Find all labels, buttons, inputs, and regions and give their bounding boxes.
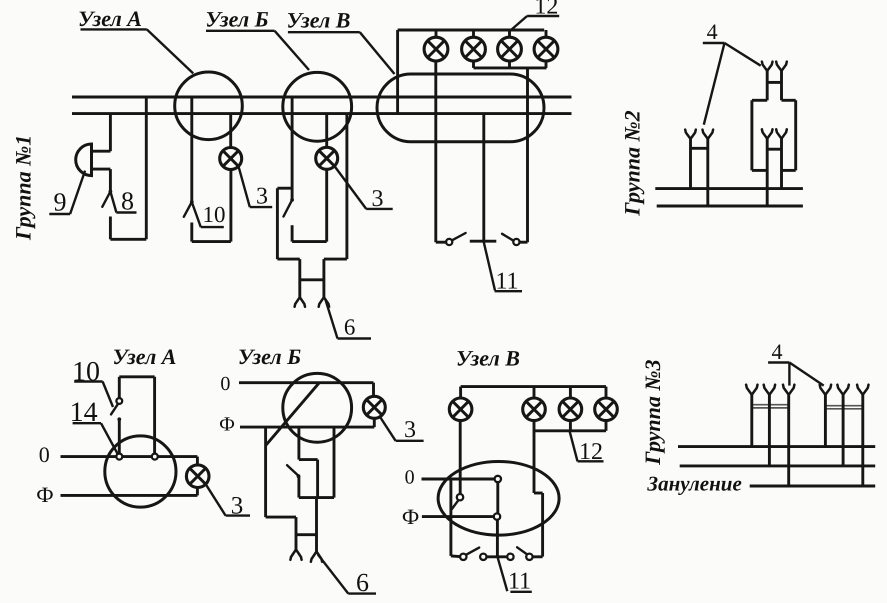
switch S11 contact b: [513, 239, 519, 245]
socket X2 inner stem 1 to bus N: [766, 139, 769, 206]
detail V lamp3 bottom stub: [569, 421, 572, 431]
bus N group 3: [680, 464, 876, 467]
label 4 pointer to right socket: [725, 43, 761, 66]
detail B outer-left vertical: [264, 427, 267, 517]
detail A right vertical: [196, 457, 199, 496]
svg-text:Группа №2: Группа №2: [620, 110, 645, 216]
detail V middle wire lower: [496, 520, 499, 556]
svg-text:Узел В: Узел В: [287, 8, 351, 33]
switch S10 blade: [184, 202, 192, 217]
lamp HL12-1 (detail V): [449, 398, 472, 421]
detail B inner vertical upper: [297, 427, 300, 460]
socket X3 connector double line: [752, 404, 789, 406]
switch S11 blade right (detail): [517, 547, 528, 555]
junction box ellipse (detail V): [438, 462, 559, 536]
bus L group 2: [655, 187, 803, 190]
detail B lamp to phase line: [373, 418, 376, 427]
socket X2 inner stem 2 to bus L: [780, 139, 783, 189]
label 3 node A pointer: [239, 166, 250, 207]
socket X1 stem 1 to bus L: [689, 139, 692, 189]
switch S11 contact a: [446, 239, 452, 245]
socket X2 top prong 1: [762, 62, 773, 71]
socket X3 stem 2 to bus N: [768, 395, 771, 466]
svg-text:6: 6: [344, 315, 356, 340]
switch S8 blade: [102, 192, 110, 207]
detail V lamp feed bus: [461, 385, 606, 388]
detail V terminal 0 line: [495, 476, 501, 482]
wire bottom U node A: [192, 240, 231, 243]
phase line (detail V): [422, 515, 494, 518]
svg-text:0: 0: [39, 442, 50, 467]
socket X4 connector double line: [825, 405, 862, 407]
label 12 pointer (top): [511, 16, 527, 30]
wire bus L1 to switch (node B): [291, 97, 294, 200]
detail A loop left upper: [118, 377, 121, 398]
socket X2 box bottom left: [752, 169, 767, 172]
lamp HL3 (detail B): [363, 396, 385, 418]
svg-text:3: 3: [404, 417, 416, 443]
detail B bottom connector: [299, 496, 334, 499]
detail V lamp1 switch blade: [452, 500, 458, 509]
pendant contact prong left (item 6): [295, 297, 305, 307]
detail B inner right vertical: [316, 460, 319, 498]
svg-text:8: 8: [121, 186, 134, 215]
label 3 underline (detail A): [226, 514, 250, 516]
lamp row stub bottom 4: [545, 61, 548, 68]
lamp row stub bottom 3: [508, 61, 511, 68]
detail B diagonal jumper: [266, 383, 319, 445]
detail A switch blade: [111, 404, 118, 414]
label 11 underline (detail V): [510, 591, 531, 593]
svg-text:Группа №3: Группа №3: [640, 359, 665, 465]
label 12 underline (detail V): [578, 460, 604, 462]
wire sconce to switch S8: [109, 169, 112, 191]
detail V middle wire upper: [496, 482, 499, 513]
label Узел Б pointer: [275, 31, 309, 70]
pedestal right stem: [322, 259, 325, 297]
pendant contact prong right (item 6): [319, 297, 329, 307]
pendant prong right (detail B, item 6): [311, 552, 322, 562]
svg-text:Ф: Ф: [36, 482, 53, 507]
detail B prong left stem: [295, 517, 298, 549]
socket X2 inner prong 2: [776, 129, 787, 138]
label Узел В pointer: [360, 32, 395, 74]
wire lamp HL3a up: [229, 170, 232, 242]
label 3 node B pointer: [335, 166, 367, 209]
detail A switch contact upper: [116, 398, 122, 404]
lamp HL12-3: [498, 37, 522, 61]
detail V lamp2 stub: [533, 387, 536, 399]
bus L group 3: [678, 445, 875, 448]
detail V lamp4 stub: [605, 387, 608, 399]
socket X2 top stem 2: [780, 71, 783, 100]
label 4 pointer down (group 3): [788, 363, 790, 386]
phase line (detail B): [240, 426, 374, 429]
lamp HL12-4 (detail V): [595, 398, 618, 421]
label 6 pointer (detail B): [318, 555, 348, 594]
switch S11 blade left (detail): [466, 548, 479, 555]
label 10 underline (detail A): [74, 380, 102, 382]
socket X3 prong 1: [746, 385, 757, 395]
detail A loop top: [119, 375, 154, 378]
label 6 underline (detail B): [348, 592, 376, 594]
switch S11 row stub right (detail): [533, 555, 543, 558]
switch S11 center bar: [470, 240, 497, 243]
bus L1 (phase) top diagram: [72, 96, 572, 99]
label 14 underline (detail A): [73, 422, 101, 424]
detail B right vertical: [333, 427, 336, 498]
wire lamp1 down to switch row: [434, 61, 437, 243]
socket X3 prong 2: [764, 385, 775, 395]
lamp HL12-4: [534, 37, 558, 61]
wire return up to bus L1: [145, 97, 148, 239]
socket X4 prong 1: [820, 385, 831, 395]
wall lamp HL9 (sconce) half-disc symbol: [76, 144, 92, 176]
label 8 underline: [116, 211, 136, 213]
svg-text:Зануление: Зануление: [646, 472, 741, 496]
lamp HL12-2: [462, 37, 486, 61]
detail B inner jog: [299, 458, 318, 461]
wire lamp HL3b to bus N: [325, 114, 328, 148]
socket X4 prong 3: [857, 385, 868, 395]
switch S11 blade a: [452, 233, 466, 240]
label 10 pointer (detail A): [103, 382, 113, 408]
lamp row stub top 4: [545, 30, 548, 38]
detail A loop right side: [153, 377, 156, 457]
lamp row stub top 1: [435, 30, 438, 38]
label 3 pointer (detail B): [381, 418, 396, 441]
wire bottom return group1: [110, 238, 146, 241]
switch S11 row stub left (detail): [451, 554, 460, 558]
label 4 underline (group 2): [703, 42, 725, 44]
junction box circle (detail A): [105, 436, 176, 507]
junction box node V stadium outline: [377, 74, 544, 142]
label Узел Б underline: [206, 30, 275, 32]
detail A terminal left on 0 line: [116, 454, 122, 460]
svg-text:4: 4: [772, 339, 783, 364]
label 10 underline: [201, 226, 224, 228]
label 11 pointer (top): [484, 242, 495, 290]
detail B inner vertical lower: [297, 476, 300, 497]
label Узел А underline: [81, 28, 147, 30]
wire lamp bus down right: [526, 68, 529, 242]
wire lamp HL3b up: [325, 169, 328, 241]
socket X1 prong 2: [703, 130, 714, 139]
switch S11 row left stub: [436, 241, 446, 244]
label 3 pointer (detail A): [206, 484, 226, 515]
lamp HL3 (node A): [220, 148, 242, 170]
svg-text:10: 10: [72, 356, 100, 387]
wire bottom U node B: [292, 240, 327, 243]
socket X1 stem 2 to bus N: [706, 139, 709, 206]
label 3 node B underline: [366, 208, 393, 210]
detail B outer-left jog: [266, 516, 296, 519]
label Узел А pointer: [147, 29, 193, 73]
label 9 underline: [49, 213, 70, 215]
detail B switch blade: [287, 465, 298, 475]
bus N group 2: [657, 205, 803, 208]
socket X2 box right shoulder: [782, 99, 796, 102]
socket X2 top stem 1: [766, 71, 769, 100]
label 9 pointer: [70, 171, 85, 214]
switch blade node B: [284, 200, 293, 217]
socket X4 stem 2 to bus N: [842, 395, 845, 466]
lamp row stub bottom 2: [472, 61, 475, 68]
switch S11 contact 4 (detail): [526, 554, 532, 560]
lamp HL12-3 (detail V): [559, 398, 582, 421]
detail B prong connector: [296, 533, 317, 536]
lamp row stub top 2: [472, 30, 475, 38]
detail V left vertical: [449, 479, 452, 556]
label 11 pointer (detail V): [497, 557, 507, 592]
socket X2 top connector: [767, 81, 781, 84]
socket X3 stem 1 to bus L: [750, 395, 753, 447]
label 6 underline (top): [338, 337, 372, 339]
svg-text:Группа №1: Группа №1: [10, 135, 35, 241]
label 3 underline (detail B): [396, 440, 424, 442]
detail V lamp4 bottom stub: [605, 421, 608, 431]
wire outer-right down to pedestal: [345, 114, 348, 260]
socket X3 prong 3: [783, 385, 794, 395]
switch S11 center bar (detail): [487, 555, 507, 558]
socket X1 prong 1: [685, 130, 696, 139]
label 4 underline (group 3): [768, 361, 789, 363]
label 8 pointer: [110, 192, 116, 213]
label 12 pointer (detail V): [570, 431, 578, 462]
lamp HL3 (node B): [316, 147, 338, 169]
wire switch S8 down: [109, 217, 112, 240]
bus N top diagram: [72, 112, 572, 115]
socket X2 inner prong 1: [762, 129, 773, 138]
detail V step jog: [534, 492, 543, 495]
svg-text:Узел Б: Узел Б: [238, 344, 301, 369]
lamp row feed bus (item 12): [398, 29, 545, 32]
svg-text:4: 4: [707, 19, 718, 44]
switch S11 contact 1 (detail): [460, 554, 466, 560]
label 4 pointer to left socket: [704, 43, 725, 125]
detail V terminal lamp1: [457, 494, 463, 500]
pedestal connector: [300, 278, 324, 281]
junction box circle (detail B): [283, 373, 352, 442]
lamp HL12-2 (detail V): [523, 398, 546, 421]
socket X2 box right side: [794, 100, 797, 170]
socket X4 stem 3 to ground bus: [861, 395, 864, 486]
socket X2 box left shoulder: [752, 99, 767, 102]
wire lamp HL3a to bus N: [229, 114, 232, 148]
zero line (detail A): [61, 455, 198, 458]
socket X2 top prong 2: [776, 62, 787, 71]
label 12 underline (top): [527, 15, 559, 17]
phase line (detail A): [61, 494, 198, 497]
wire sconce bottom stub: [92, 168, 111, 171]
detail V lamps bottom bus: [534, 429, 606, 432]
lamp HL12-1: [424, 37, 448, 61]
svg-text:Ф: Ф: [219, 414, 235, 436]
svg-text:Узел А: Узел А: [113, 344, 177, 369]
lamp row stub top 3: [508, 30, 511, 38]
lamp row bottom bus: [474, 66, 547, 69]
label 14 pointer (detail A): [101, 423, 118, 454]
wire switch S10 down: [190, 223, 193, 242]
svg-text:9: 9: [54, 188, 67, 217]
label 4 pointer diagonal (group 3): [789, 363, 823, 386]
svg-text:0: 0: [220, 373, 230, 395]
detail V right vertical: [541, 493, 544, 557]
detail V lamp3 stub: [569, 387, 572, 399]
wire lamp bus corner down to bus N: [396, 30, 399, 114]
label 11 underline (top): [495, 290, 522, 292]
switch S11 contact 3 (detail): [507, 554, 513, 560]
lamp HL3 (detail A): [186, 465, 209, 488]
wire bus N down (node V): [482, 114, 485, 243]
wire switch node B down: [291, 225, 294, 241]
detail V terminal Ф line: [494, 513, 500, 519]
pendant prong left (detail B, item 6): [290, 550, 301, 560]
detail V lamp1 down wire: [459, 421, 462, 494]
detail A terminal right on 0 line: [152, 454, 158, 460]
wire sconce top stub: [92, 150, 111, 153]
detail B 0-line corner down: [372, 383, 375, 397]
detail V lamp1 stub: [459, 387, 462, 399]
svg-text:Узел В: Узел В: [456, 346, 520, 371]
zero line (detail V): [422, 478, 495, 481]
junction box node A circle: [175, 72, 243, 140]
socket X3 stem 3 to ground bus: [787, 395, 790, 486]
label Узел В underline: [288, 31, 360, 33]
switch S11 blade b: [502, 234, 514, 242]
pedestal right shoulder: [324, 258, 347, 261]
svg-text:Ф: Ф: [402, 504, 419, 529]
wire outer-left down to pedestal: [276, 188, 279, 259]
zero line (detail B): [239, 381, 374, 384]
detail V lamp2 descender: [533, 421, 536, 493]
detail A loop left lower: [118, 419, 121, 456]
socket X2 inner connector: [767, 148, 781, 151]
socket X2 box left side: [750, 100, 753, 170]
detail B prong right stem: [315, 498, 318, 552]
label 6 pointer (top): [325, 300, 337, 339]
label 3 node A underline: [250, 206, 272, 208]
svg-text:Узел А: Узел А: [78, 6, 142, 31]
svg-text:3: 3: [256, 184, 268, 210]
socket X2 box bottom right: [782, 169, 795, 172]
svg-text:Узел Б: Узел Б: [205, 7, 268, 32]
switch S11 contact 2 (detail): [480, 554, 486, 560]
pedestal left shoulder: [277, 258, 299, 261]
ground bus Зануление: [750, 485, 876, 488]
wire bus L1 to switch S10: [190, 97, 193, 202]
socket X4 stem 1 to bus L: [824, 395, 827, 447]
socket X1 connector: [691, 147, 708, 150]
pedestal left stem: [298, 259, 301, 297]
switch S11 row right stub: [520, 241, 528, 244]
label 10 pointer: [192, 202, 201, 227]
wire bus N to sconce: [109, 114, 112, 152]
socket X4 prong 2: [837, 385, 848, 395]
junction box node B circle: [283, 72, 352, 141]
svg-text:0: 0: [405, 467, 415, 489]
svg-text:10: 10: [203, 202, 226, 227]
wire jog to outer-left: [277, 187, 292, 190]
